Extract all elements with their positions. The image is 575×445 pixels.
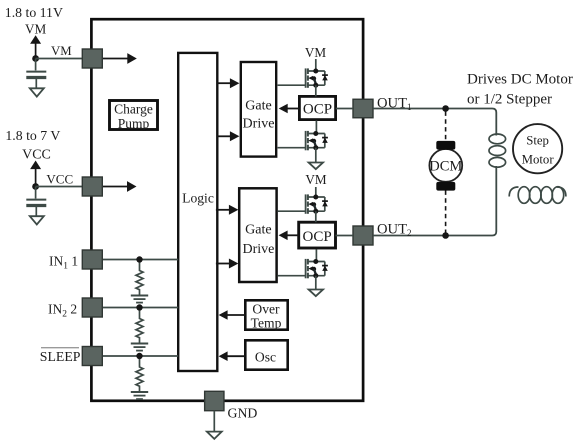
svg-text:Osc: Osc xyxy=(255,350,276,365)
svg-text:Temp: Temp xyxy=(251,316,282,331)
svg-text:VM: VM xyxy=(305,172,327,187)
svg-text:SLEEP: SLEEP xyxy=(40,349,81,364)
svg-text:OUT1: OUT1 xyxy=(377,95,412,112)
svg-text:Gate: Gate xyxy=(245,222,271,237)
svg-text:OCP: OCP xyxy=(303,229,332,245)
svg-text:Step: Step xyxy=(526,134,549,148)
svg-text:Gate: Gate xyxy=(245,99,271,114)
svg-text:GND: GND xyxy=(228,406,258,421)
svg-text:VCC: VCC xyxy=(46,172,73,187)
svg-text:IN1 1: IN1 1 xyxy=(49,254,78,272)
svg-text:OUT2: OUT2 xyxy=(377,221,412,238)
svg-text:1.8 to 7 V: 1.8 to 7 V xyxy=(5,128,60,143)
svg-text:Drive: Drive xyxy=(242,242,274,257)
svg-text:VM: VM xyxy=(25,22,47,37)
svg-text:Drive: Drive xyxy=(243,117,275,132)
svg-text:1.8 to 11V: 1.8 to 11V xyxy=(5,5,63,20)
svg-text:Drives DC Motor: Drives DC Motor xyxy=(467,72,573,88)
svg-text:Logic: Logic xyxy=(182,191,214,206)
svg-text:DCM: DCM xyxy=(429,158,462,174)
svg-text:Over: Over xyxy=(252,301,280,316)
svg-text:IN2 2: IN2 2 xyxy=(48,302,77,320)
svg-text:or 1/2 Stepper: or 1/2 Stepper xyxy=(467,92,552,108)
svg-text:Motor: Motor xyxy=(522,153,555,167)
svg-text:Pump: Pump xyxy=(118,116,150,131)
svg-text:VM: VM xyxy=(51,44,72,58)
svg-text:VM: VM xyxy=(305,45,327,60)
svg-text:OCP: OCP xyxy=(303,102,332,118)
svg-text:Charge: Charge xyxy=(114,102,153,117)
svg-text:VCC: VCC xyxy=(22,148,51,163)
